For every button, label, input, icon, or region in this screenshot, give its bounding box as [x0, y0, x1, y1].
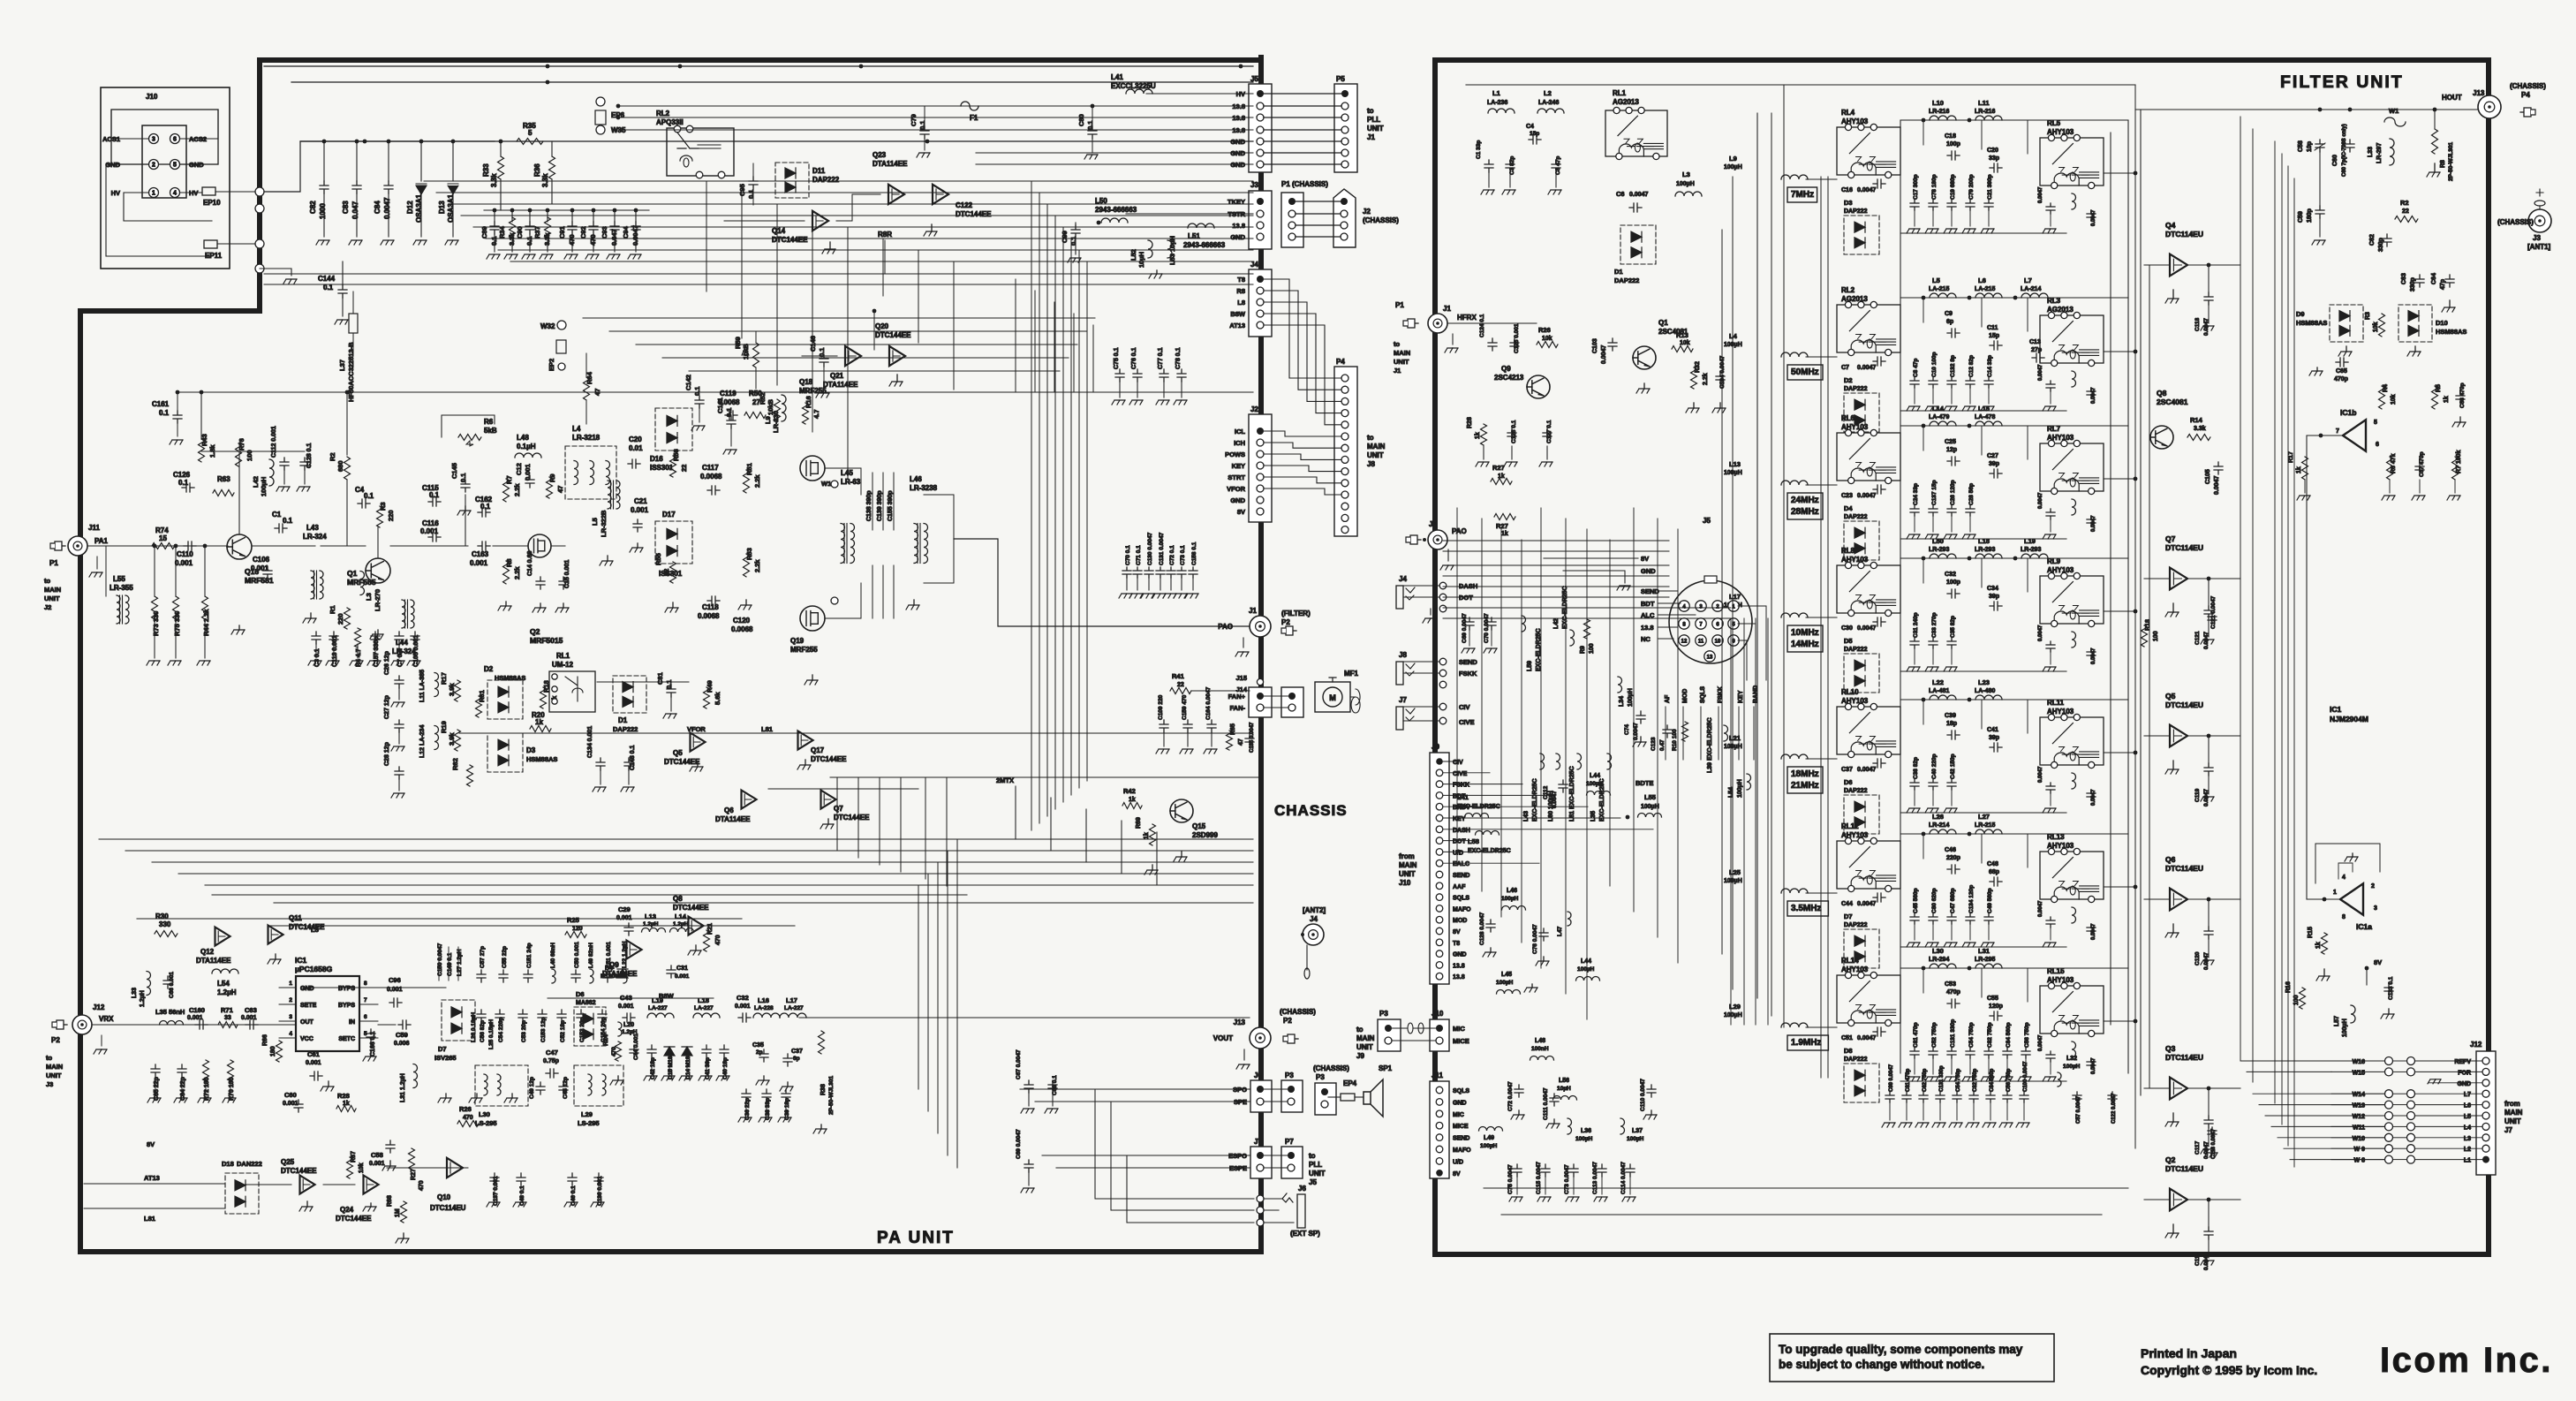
- svg-text:LA-227: LA-227: [784, 1005, 804, 1011]
- transistor Q1 MRF555: [366, 558, 390, 583]
- svg-text:Q1: Q1: [1658, 319, 1668, 327]
- svg-text:0.1: 0.1: [364, 492, 374, 500]
- svg-text:R38: R38: [820, 1084, 827, 1095]
- svg-text:DTC114EU: DTC114EU: [2165, 1164, 2203, 1173]
- svg-text:0.0047: 0.0047: [2038, 364, 2043, 381]
- wire HV to L41: [1047, 66, 1253, 94]
- svg-text:SQLS: SQLS: [1453, 896, 1469, 902]
- svg-text:2.2k: 2.2k: [753, 559, 761, 572]
- svg-text:AHY103: AHY103: [1841, 697, 1869, 705]
- svg-text:D9: D9: [2296, 310, 2305, 318]
- svg-text:LR-294: LR-294: [1929, 957, 1949, 963]
- svg-text:15: 15: [159, 534, 167, 542]
- svg-text:J9: J9: [1432, 743, 1439, 751]
- svg-text:180: 180: [270, 1046, 276, 1056]
- svg-text:C33 270p: C33 270p: [1931, 612, 1938, 638]
- diode D17 ISS301 box: [655, 521, 692, 564]
- svg-text:D8: D8: [1844, 1047, 1853, 1055]
- svg-text:L45: L45: [841, 469, 853, 477]
- svg-text:L43: L43: [1523, 811, 1530, 822]
- svg-text:AG2013: AG2013: [1613, 98, 1639, 106]
- svg-text:C56 750p: C56 750p: [2006, 1068, 2012, 1092]
- svg-text:C113 0.0047: C113 0.0047: [1592, 1162, 1598, 1194]
- svg-text:D16: D16: [650, 455, 663, 463]
- svg-text:100µH: 100µH: [2063, 1064, 2081, 1070]
- resistors R17 R19 3.9k: [455, 680, 461, 701]
- svg-text:L49 82nH: L49 82nH: [588, 943, 594, 968]
- svg-text:13.8: 13.8: [1232, 222, 1245, 230]
- svg-text:LR-293: LR-293: [1929, 547, 1949, 553]
- svg-text:MAIN: MAIN: [2504, 1109, 2523, 1117]
- svg-text:24MHz: 24MHz: [1791, 496, 1819, 505]
- diode D12 OSA3A1: [419, 140, 424, 144]
- svg-text:0.001: 0.001: [420, 527, 439, 535]
- svg-text:be subject to change without n: be subject to change without notice.: [1779, 1358, 1984, 1371]
- svg-text:MRF255: MRF255: [799, 387, 827, 395]
- svg-text:470: 470: [715, 935, 721, 945]
- svg-text:AHY103: AHY103: [1841, 117, 1869, 125]
- svg-text:22: 22: [662, 569, 670, 576]
- svg-text:2: 2: [2371, 883, 2375, 890]
- svg-text:CIVE: CIVE: [1453, 771, 1468, 777]
- wires Q14 chain: [836, 194, 880, 221]
- svg-text:(CHASSIS): (CHASSIS): [1313, 1064, 1349, 1072]
- svg-text:0.0047: 0.0047: [2091, 789, 2096, 806]
- svg-text:R16: R16: [805, 396, 812, 408]
- svg-text:Q1: Q1: [347, 569, 358, 578]
- svg-text:J3: J3: [2533, 234, 2541, 242]
- svg-text:U/D: U/D: [1453, 1159, 1463, 1165]
- svg-text:DOT: DOT: [1453, 839, 1467, 845]
- inductors L13 L14 1.2uH: [642, 928, 666, 933]
- svg-text:6: 6: [2376, 442, 2379, 448]
- svg-text:11: 11: [1698, 640, 1704, 645]
- svg-text:D3: D3: [1844, 199, 1853, 207]
- svg-text:DTC144EE: DTC144EE: [834, 814, 870, 822]
- filter mid long verticals: [1820, 177, 1822, 1078]
- output transformer W1 L45 LR-63: [831, 481, 838, 488]
- svg-text:C76 0.0047: C76 0.0047: [1532, 924, 1538, 954]
- svg-text:10MHz: 10MHz: [1791, 628, 1819, 638]
- resistor R8 2P-50-WJL301: [2432, 129, 2438, 154]
- svg-text:0.1: 0.1: [665, 680, 673, 689]
- svg-text:Q25: Q25: [281, 1158, 295, 1166]
- jack J1 HFRX: [1428, 314, 1447, 333]
- inverter Q17 DTC144EE: [798, 731, 813, 750]
- resistor R53 2.2k: [744, 554, 750, 577]
- resistor R32 2.2k: [1691, 367, 1697, 389]
- svg-text:D7: D7: [438, 1045, 447, 1053]
- svg-text:0.0068: 0.0068: [718, 398, 740, 406]
- svg-text:HSM88AS: HSM88AS: [2436, 328, 2466, 336]
- svg-text:120: 120: [572, 926, 583, 932]
- cap C163 0.001: [478, 541, 490, 550]
- svg-text:C73 0.1: C73 0.1: [1180, 545, 1186, 565]
- svg-text:C35 82p: C35 82p: [1950, 616, 1956, 638]
- svg-text:C134 0.001: C134 0.001: [587, 726, 593, 758]
- svg-text:0.0047: 0.0047: [2091, 515, 2096, 532]
- svg-text:(EXT SP): (EXT SP): [1290, 1230, 1320, 1238]
- resistor R64 47: [584, 377, 590, 400]
- svg-text:C103: C103: [1592, 338, 1598, 353]
- svg-text:220: 220: [387, 510, 395, 521]
- caps C134 C148: [596, 758, 605, 770]
- svg-text:L52: L52: [1129, 249, 1137, 261]
- svg-text:15p: 15p: [1989, 333, 1999, 339]
- svg-text:DTC114EU: DTC114EU: [430, 1204, 466, 1212]
- svg-text:C163: C163: [472, 550, 489, 558]
- svg-text:W12: W12: [2353, 1114, 2366, 1120]
- svg-text:R2: R2: [329, 452, 336, 461]
- inductors L1 L2: [1488, 109, 1515, 113]
- svg-text:15p: 15p: [1530, 131, 1539, 137]
- svg-text:Q17: Q17: [811, 746, 825, 754]
- svg-text:L14: L14: [1932, 405, 1945, 413]
- svg-text:R17: R17: [440, 672, 448, 685]
- svg-text:from: from: [1399, 852, 1415, 860]
- svg-text:DAP222: DAP222: [1844, 922, 1868, 928]
- svg-text:Q19: Q19: [790, 637, 805, 645]
- svg-text:J15: J15: [1235, 674, 1247, 682]
- svg-text:1k: 1k: [2315, 942, 2322, 949]
- svg-text:C117: C117: [702, 464, 719, 472]
- resistor R3 10k: [2379, 314, 2385, 337]
- svg-text:FAN+: FAN+: [1228, 693, 1246, 700]
- svg-text:C23: C23: [1841, 493, 1853, 499]
- svg-text:IC1: IC1: [2330, 705, 2342, 714]
- svg-text:R30: R30: [155, 913, 169, 920]
- svg-text:0.0047: 0.0047: [2091, 387, 2096, 404]
- svg-text:L49: L49: [1484, 1135, 1494, 1141]
- svg-text:L44: L44: [1581, 958, 1591, 965]
- svg-text:R10 100: R10 100: [1672, 729, 1678, 751]
- svg-text:R16: R16: [2285, 981, 2292, 993]
- svg-text:R3: R3: [2365, 312, 2371, 320]
- svg-text:AG2013: AG2013: [1841, 295, 1868, 303]
- svg-text:L31: L31: [1978, 947, 1990, 955]
- resistor R61: [476, 696, 482, 717]
- svg-text:C134 120p: C134 120p: [1968, 885, 1975, 913]
- filter left vertical bus: [1783, 85, 1785, 1027]
- svg-text:L6: L6: [1978, 276, 1986, 284]
- svg-text:C58: C58: [2298, 140, 2304, 152]
- svg-text:10k: 10k: [2373, 322, 2379, 332]
- cap C162 0.1: [478, 508, 490, 517]
- svg-text:R51: R51: [745, 463, 753, 475]
- svg-text:SQLS: SQLS: [1453, 1088, 1469, 1094]
- svg-text:D4: D4: [605, 966, 613, 972]
- main RF input wire: [87, 545, 228, 547]
- svg-text:1M: 1M: [395, 1208, 401, 1217]
- svg-text:DAP222: DAP222: [1844, 1056, 1868, 1063]
- wires middle to filter: [1443, 540, 1669, 541]
- resistor R51 2.2k: [744, 470, 750, 493]
- choke L37: [349, 314, 358, 333]
- svg-text:C21 390p: C21 390p: [1987, 174, 1993, 200]
- right caps: [2046, 641, 2055, 652]
- inductor L33 1.2uH: [147, 972, 151, 996]
- svg-text:6p: 6p: [1946, 319, 1953, 325]
- svg-text:R21: R21: [707, 923, 714, 935]
- svg-text:7: 7: [2336, 428, 2339, 435]
- resistor R18 1k: [540, 687, 547, 708]
- svg-text:C72 0.0047: C72 0.0047: [1507, 1081, 1514, 1111]
- caps C112 C128: [280, 458, 289, 470]
- svg-text:(CHASSIS): (CHASSIS): [2497, 218, 2534, 226]
- svg-text:100µH: 100µH: [1575, 1136, 1593, 1142]
- svg-text:0.0068: 0.0068: [700, 473, 722, 481]
- svg-text:C61: C61: [307, 1050, 320, 1058]
- diode D7 ISV265: [442, 1000, 475, 1041]
- svg-text:DASH: DASH: [1453, 828, 1470, 834]
- svg-text:C53 20p: C53 20p: [521, 1020, 527, 1042]
- svg-text:D6: D6: [576, 990, 585, 998]
- svg-text:R9: R9: [548, 473, 556, 482]
- svg-text:C32: C32: [737, 994, 749, 1002]
- svg-text:L18: L18: [698, 996, 709, 1004]
- svg-text:J2: J2: [1250, 405, 1258, 413]
- svg-text:J10: J10: [1399, 879, 1411, 887]
- svg-text:C118: C118: [702, 603, 719, 611]
- W row left wires: [2240, 1060, 2331, 1062]
- resistor R52 10kB: [774, 399, 781, 422]
- svg-text:12: 12: [1681, 640, 1688, 645]
- svg-text:C9: C9: [1945, 311, 1953, 317]
- caps C137 C48 C46 C136: [490, 1173, 499, 1185]
- svg-text:C64 22p: C64 22p: [180, 1077, 186, 1101]
- svg-text:R67: R67: [351, 1151, 357, 1162]
- svg-text:L46: L46: [1507, 888, 1517, 894]
- svg-text:MRF255: MRF255: [790, 646, 818, 654]
- svg-text:0.1: 0.1: [178, 479, 189, 487]
- svg-text:R73 330: R73 330: [152, 611, 160, 636]
- cap C126 0.1: [182, 483, 194, 492]
- svg-text:W 9: W 9: [2354, 1147, 2366, 1153]
- svg-text:L33: L33: [132, 988, 138, 998]
- svg-text:33p: 33p: [1989, 155, 1999, 162]
- svg-text:AT13: AT13: [1229, 322, 1245, 329]
- svg-text:D15 M1809: D15 M1809: [668, 1049, 674, 1079]
- filter row link verticals: [1900, 120, 1901, 1073]
- svg-text:2p: 2p: [756, 1049, 763, 1056]
- svg-text:0.047: 0.047: [351, 201, 359, 219]
- svg-text:C105: C105: [2205, 469, 2211, 484]
- svg-text:C151 24p: C151 24p: [526, 943, 533, 968]
- svg-text:C65: C65: [2336, 368, 2347, 375]
- svg-text:LR-63: LR-63: [841, 478, 861, 486]
- svg-text:100µH: 100µH: [1577, 966, 1595, 973]
- svg-text:RL10: RL10: [1841, 688, 1859, 696]
- svg-text:RL12: RL12: [1841, 822, 1859, 830]
- resistors R4 R5 C66: [2379, 386, 2385, 409]
- svg-text:C45 560p: C45 560p: [1913, 888, 1919, 913]
- svg-text:J4: J4: [1310, 915, 1318, 923]
- svg-text:B8W: B8W: [1230, 310, 1246, 318]
- svg-text:C30: C30: [1841, 625, 1853, 632]
- filter caps C57 C122 right: [2073, 1092, 2081, 1102]
- svg-text:KEY: KEY: [1232, 462, 1245, 470]
- svg-text:2P-50-WJL301: 2P-50-WJL301: [2448, 142, 2454, 181]
- svg-text:J10: J10: [1432, 1010, 1444, 1018]
- svg-text:47: 47: [1238, 738, 1244, 746]
- svg-text:BYPS: BYPS: [338, 1003, 355, 1009]
- resistor R62: [467, 765, 473, 786]
- svg-text:Q14: Q14: [772, 227, 786, 235]
- svg-text:C137 0.001: C137 0.001: [493, 1176, 499, 1206]
- svg-text:C109 220: C109 220: [1158, 694, 1164, 720]
- svg-text:LA-480: LA-480: [1975, 688, 1995, 694]
- svg-text:R62: R62: [451, 758, 459, 770]
- svg-text:UNIT: UNIT: [1367, 451, 1384, 459]
- svg-text:R76: R76: [238, 438, 246, 451]
- svg-text:L22: L22: [1932, 678, 1944, 686]
- svg-text:L8: L8: [1237, 299, 1245, 307]
- cap C31 0.001: [667, 966, 676, 978]
- svg-text:P7: P7: [1285, 1138, 1294, 1146]
- svg-text:J9: J9: [1356, 1052, 1364, 1060]
- svg-text:UNIT: UNIT: [1309, 1170, 1326, 1178]
- filter left vertical extras: [1732, 177, 1734, 989]
- svg-text:Q15: Q15: [1192, 822, 1206, 830]
- svg-text:EXC-ELDR25C: EXC-ELDR25C: [1532, 778, 1538, 822]
- svg-text:D1: D1: [1614, 268, 1623, 276]
- svg-text:0.0047: 0.0047: [2038, 492, 2043, 509]
- svg-text:L25 0.15µH: L25 0.15µH: [488, 1019, 495, 1049]
- svg-text:P2: P2: [51, 1036, 60, 1044]
- svg-text:LR-324: LR-324: [303, 533, 327, 541]
- inductor L3 LR-270: [360, 572, 365, 595]
- svg-text:IC1a: IC1a: [2356, 922, 2372, 931]
- svg-text:C50 0.001: C50 0.001: [574, 942, 580, 968]
- svg-text:C116 0.0047: C116 0.0047: [2211, 1128, 2217, 1159]
- svg-text:D3: D3: [526, 746, 536, 754]
- svg-text:C27: C27: [1987, 453, 1998, 459]
- svg-text:J1: J1: [1249, 607, 1257, 615]
- svg-text:W1: W1: [2389, 107, 2398, 115]
- svg-text:DTC144EE: DTC144EE: [664, 758, 700, 766]
- svg-text:J8: J8: [1367, 460, 1375, 468]
- svg-text:(CHASSIS): (CHASSIS): [1280, 1008, 1316, 1016]
- right caps: [2046, 381, 2055, 391]
- MOSFET Q19 MRF255: [800, 606, 825, 631]
- svg-text:L23: L23: [1978, 678, 1990, 686]
- inductor L54 1.2uH: [212, 969, 238, 973]
- svg-text:C65 22p: C65 22p: [154, 1077, 160, 1101]
- resistor R35: [517, 139, 543, 145]
- control bus wires: [424, 180, 1253, 182]
- svg-text:Q9: Q9: [1501, 365, 1511, 373]
- right caps: [2046, 509, 2055, 519]
- svg-text:R70 180: R70 180: [229, 1077, 235, 1101]
- inverter Q14 DTC144EE: [812, 211, 828, 231]
- svg-text:RL6: RL6: [1841, 414, 1855, 422]
- svg-text:C54 750p: C54 750p: [1968, 1022, 1975, 1048]
- svg-text:R24: R24: [603, 1034, 609, 1046]
- svg-text:L14: L14: [675, 913, 687, 920]
- resistor R24 470 C44 0.001: [616, 1041, 622, 1061]
- svg-text:AAF: AAF: [1453, 884, 1466, 890]
- svg-text:L9: L9: [764, 416, 772, 424]
- svg-text:L81: L81: [761, 725, 773, 733]
- svg-text:L13: L13: [645, 913, 656, 920]
- cap C59 0.006: [398, 1020, 411, 1029]
- svg-text:C6: C6: [1616, 190, 1625, 198]
- svg-text:0.001: 0.001: [306, 1060, 321, 1066]
- svg-text:J1: J1: [1394, 367, 1401, 375]
- svg-text:(CHASSIS): (CHASSIS): [2510, 82, 2546, 90]
- svg-text:12p: 12p: [1946, 447, 1957, 453]
- svg-text:0.1: 0.1: [918, 121, 926, 130]
- svg-text:LR-3218: LR-3218: [572, 434, 601, 442]
- svg-text:L7: L7: [2024, 276, 2032, 284]
- svg-text:C47 680p: C47 680p: [1950, 888, 1956, 913]
- svg-text:J8: J8: [1399, 651, 1407, 659]
- svg-text:ISV265: ISV265: [434, 1054, 457, 1062]
- diode D10 HSM88AS: [2398, 305, 2432, 342]
- cap C141: [727, 416, 736, 428]
- svg-text:R63: R63: [217, 475, 230, 483]
- filter row output wires: [2104, 172, 2135, 174]
- filter bottom rails: [1484, 1187, 2128, 1189]
- wire Q20 up: [873, 311, 875, 350]
- svg-text:C137 15p: C137 15p: [1931, 480, 1938, 505]
- svg-text:1.2µH: 1.2µH: [217, 988, 237, 996]
- resistor R26 10k: [1537, 342, 1558, 348]
- svg-text:LA-227: LA-227: [648, 1005, 668, 1011]
- svg-text:C120: C120: [2195, 951, 2201, 966]
- svg-text:R7: R7: [505, 475, 513, 484]
- svg-text:R72 180: R72 180: [204, 1077, 210, 1101]
- svg-text:2P-50-WJL301: 2P-50-WJL301: [828, 1076, 835, 1115]
- svg-text:R66: R66: [262, 1034, 268, 1046]
- svg-text:MAFO: MAFO: [1453, 1147, 1471, 1154]
- svg-text:R6 47k: R6 47k: [2391, 453, 2397, 473]
- svg-text:C128 0.1: C128 0.1: [306, 443, 313, 468]
- wires PA output stage: [825, 468, 861, 495]
- svg-text:C116: C116: [2195, 1252, 2201, 1266]
- svg-text:DOT: DOT: [1459, 594, 1473, 602]
- caps C49 C45 12p: [536, 1082, 545, 1094]
- svg-text:C66 470p: C66 470p: [2459, 382, 2466, 408]
- svg-text:C34: C34: [1987, 586, 1998, 592]
- svg-text:SEND: SEND: [1453, 873, 1469, 879]
- svg-text:AHY103: AHY103: [1841, 556, 1869, 564]
- svg-text:C53: C53: [1945, 981, 1956, 988]
- row caps to ground: [1910, 638, 1919, 648]
- svg-text:0.0047: 0.0047: [1857, 1035, 1877, 1041]
- svg-text:J6: J6: [1298, 1185, 1306, 1193]
- svg-text:D17: D17: [662, 511, 676, 519]
- svg-text:LR-216: LR-216: [1929, 109, 1949, 115]
- svg-text:C45 12p: C45 12p: [563, 1077, 569, 1099]
- fuse F1: [961, 102, 978, 110]
- freq box 1.9MHz: [1787, 1035, 1828, 1050]
- svg-text:100µH: 100µH: [1724, 1012, 1742, 1019]
- svg-text:470: 470: [611, 1047, 617, 1056]
- svg-text:RL4: RL4: [1841, 109, 1855, 117]
- caps C7 C105: [395, 632, 404, 644]
- right inductor: [2072, 773, 2076, 789]
- svg-text:RL2: RL2: [656, 110, 670, 117]
- filter bottomleft vertical wires: [1456, 508, 1458, 866]
- svg-text:FAN-: FAN-: [1230, 704, 1246, 712]
- svg-text:W10: W10: [2353, 1136, 2366, 1142]
- row wires: [1806, 484, 1837, 486]
- svg-text:L48: L48: [1535, 1038, 1545, 1044]
- svg-text:J7: J7: [1254, 1138, 1262, 1146]
- svg-text:L10: L10: [1932, 99, 1944, 107]
- svg-text:L54: L54: [217, 980, 230, 988]
